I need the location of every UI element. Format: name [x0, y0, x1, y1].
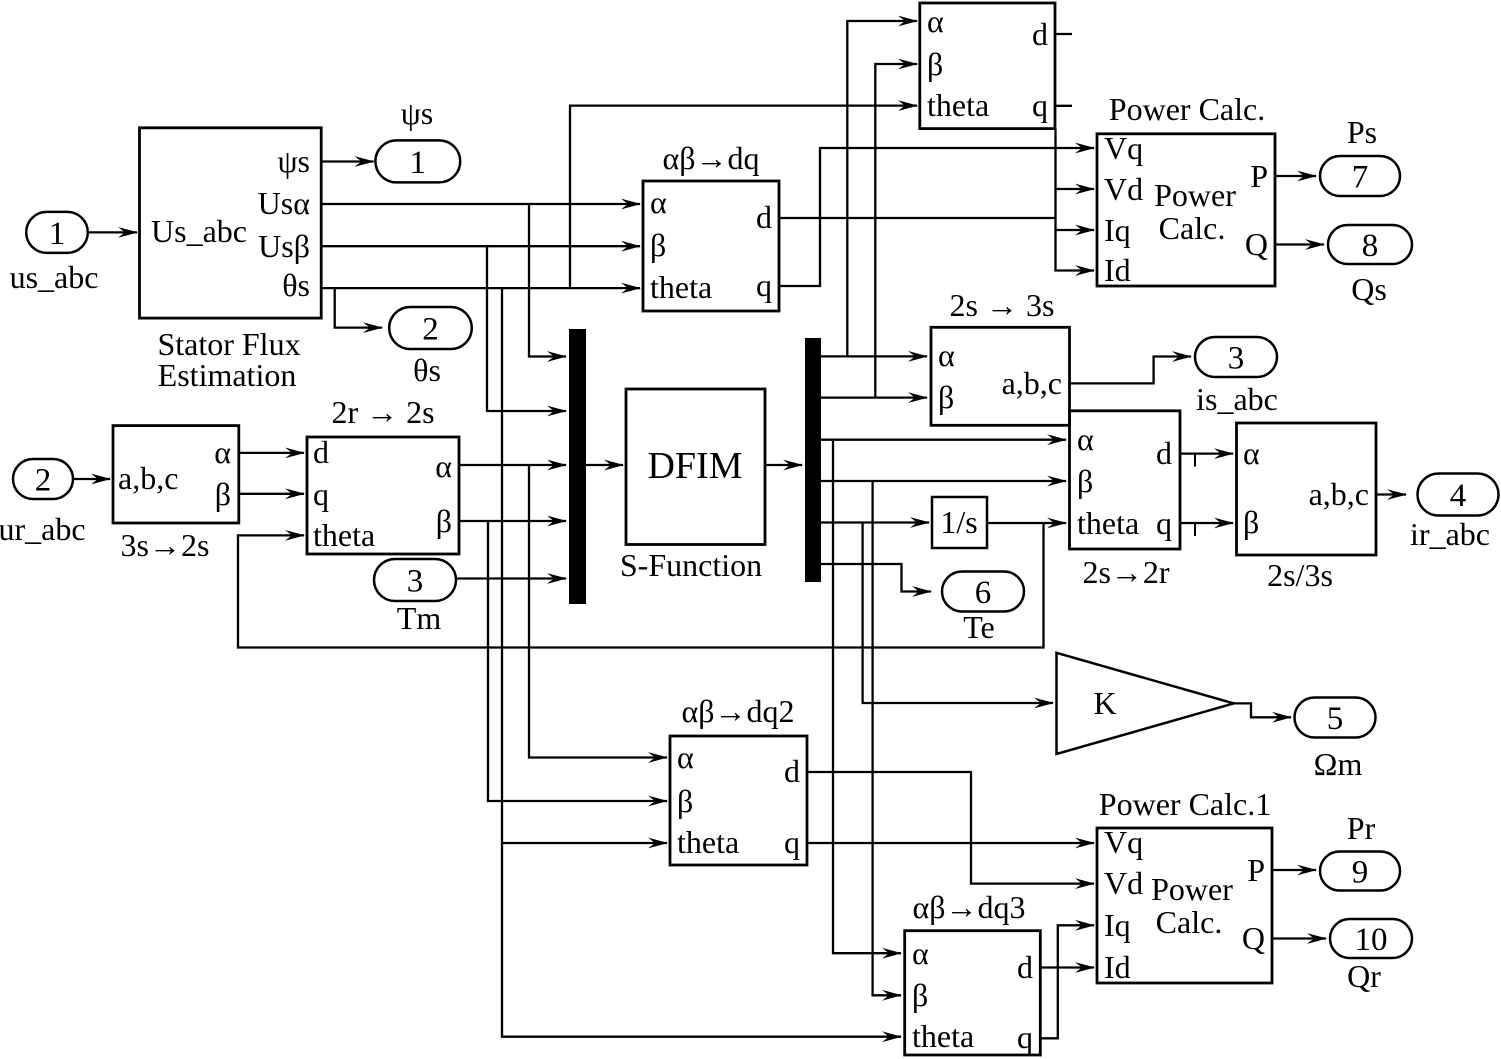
wire Demux out5 branch down to gain K: [863, 523, 1053, 704]
svg-text:α: α: [214, 434, 231, 470]
wire PowerCalc1 Q to port 10: [1272, 937, 1326, 939]
output port 4 (ir_abc): [1418, 474, 1499, 516]
svg-text:α: α: [938, 337, 955, 373]
svg-text:2s/3s: 2s/3s: [1267, 557, 1333, 593]
wire 2r-2s alpha to Mux input 3: [459, 464, 566, 466]
svg-text:theta: theta: [1077, 505, 1139, 541]
wire Demux out4 to 2s-2r beta: [821, 480, 1066, 482]
block 2s-2r: [1070, 411, 1181, 549]
wire theta-s branch to port 2: [335, 288, 382, 328]
svg-text:Ωm: Ωm: [1314, 746, 1363, 782]
svg-text:Estimation: Estimation: [158, 357, 297, 393]
block 3s-2s: [113, 426, 239, 523]
svg-text:α: α: [927, 3, 944, 39]
wire 2s/3s abc to port 4: [1376, 493, 1406, 495]
svg-text:Vq: Vq: [1104, 824, 1143, 860]
wire theta-s branch down to dq2/dq3 theta: [502, 288, 901, 1037]
wire Demux out2 to 2s-3s beta: [821, 396, 927, 398]
block top ab-dq (stator currents): [920, 3, 1055, 129]
output port 1 (psi s): [375, 140, 460, 182]
svg-text:α: α: [650, 184, 667, 220]
block Power Calc 1: [1097, 828, 1272, 983]
svg-text:q: q: [784, 824, 800, 860]
wire top block corner down to PowerCalc inputs: [1056, 129, 1095, 271]
wire ab-dq d output to PowerCalc vertical: [779, 217, 1056, 219]
svg-text:β: β: [436, 503, 452, 539]
svg-text:1/s: 1/s: [940, 504, 977, 540]
svg-text:S-Function: S-Function: [620, 547, 762, 583]
wire SFE theta-s to ab-dq theta: [321, 287, 640, 289]
stub top ab-dq q output: [1055, 105, 1072, 107]
svg-text:d: d: [1032, 16, 1048, 52]
block 2s-3s: [931, 327, 1070, 425]
output port 7 (Ps): [1320, 156, 1400, 196]
output port 5 (Omega m): [1295, 698, 1376, 738]
svg-text:a,b,c: a,b,c: [118, 460, 178, 496]
svg-text:Vd: Vd: [1104, 865, 1143, 901]
svg-text:Vq: Vq: [1104, 130, 1143, 166]
svg-text:2: 2: [35, 462, 52, 498]
wire branch to PowerCalc Vd: [1056, 188, 1095, 190]
wire In2 to 3s-2s: [73, 478, 110, 480]
svg-text:d: d: [756, 199, 772, 235]
svg-text:a,b,c: a,b,c: [1002, 365, 1062, 401]
wire Tm to Mux input 5: [456, 577, 566, 579]
input port 3 (Tm): [374, 559, 456, 601]
svg-text:q: q: [756, 267, 772, 303]
svg-text:3: 3: [407, 563, 424, 599]
svg-text:is_abc: is_abc: [1196, 381, 1278, 417]
svg-text:Iq: Iq: [1104, 907, 1131, 943]
block Stator Flux Estimation: [140, 128, 322, 318]
wire SFE Us-alpha to ab-dq alpha: [321, 203, 640, 205]
block 2r-2s: [307, 437, 459, 554]
wire Demux out1 to 2s-3s alpha: [821, 355, 927, 357]
svg-text:Power: Power: [1151, 871, 1233, 907]
wire theta feedback to 2r-2s theta: [238, 523, 1044, 648]
wire SFE Us-beta to ab-dq beta: [321, 245, 640, 247]
svg-text:8: 8: [1362, 228, 1379, 264]
output port 2 (theta s): [389, 307, 472, 349]
block ab-dq3: [905, 931, 1041, 1055]
svg-text:ur_abc: ur_abc: [0, 511, 86, 547]
block 1-over-s: [932, 497, 987, 548]
svg-text:Power Calc.: Power Calc.: [1109, 91, 1265, 127]
wire 1-over-s output to 2s-2r theta: [987, 522, 1066, 524]
svg-text:Calc.: Calc.: [1159, 210, 1226, 246]
wire DFIM output to Demux: [765, 464, 802, 466]
svg-text:Us_abc: Us_abc: [151, 213, 247, 249]
svg-text:3: 3: [1228, 340, 1245, 376]
svg-text:β: β: [215, 476, 231, 512]
wire ab-dq2 d to PowerCalc1 Vd: [807, 772, 1094, 884]
block Power Calc: [1097, 134, 1275, 286]
svg-text:7: 7: [1352, 159, 1369, 195]
svg-text:Pr: Pr: [1347, 810, 1376, 846]
svg-text:P: P: [1250, 158, 1268, 194]
wire 2r-2s beta to Mux input 4: [459, 520, 566, 522]
svg-text:Qr: Qr: [1347, 958, 1381, 994]
svg-text:q: q: [1032, 87, 1048, 123]
svg-text:β: β: [650, 227, 666, 263]
svg-text:Usβ: Usβ: [258, 228, 310, 264]
input port 1 (us_abc): [26, 212, 88, 253]
svg-text:Calc.: Calc.: [1156, 904, 1223, 940]
wire In1 to Stator Flux Estimation: [88, 231, 137, 233]
svg-text:β: β: [1077, 463, 1093, 499]
input port 2 (ur_abc): [13, 459, 73, 499]
wire Demux out2 branch up to top ab-dq beta: [875, 64, 917, 398]
output port 9 (Pr): [1320, 852, 1400, 891]
wire SFE psi-s to port 1: [321, 160, 373, 162]
svg-text:1: 1: [49, 216, 66, 252]
svg-text:d: d: [784, 753, 800, 789]
wire theta-s branch up to top ab-dq theta: [570, 106, 917, 289]
svg-text:Iq: Iq: [1104, 212, 1131, 248]
wire Us-alpha branch to Mux input 1: [529, 204, 566, 357]
wire ab-dq2 q to PowerCalc1 Vq: [807, 842, 1094, 844]
svg-text:Id: Id: [1104, 252, 1131, 288]
svg-text:θs: θs: [413, 352, 441, 388]
svg-text:K: K: [1093, 685, 1116, 721]
svg-text:θs: θs: [282, 267, 310, 303]
wire 3s-2s alpha to 2r-2s d: [239, 452, 304, 454]
wire Demux out5 to 1-over-s: [821, 521, 929, 523]
wire ab-dq q output to PowerCalc Vq: [779, 148, 1094, 286]
svg-text:Ps: Ps: [1347, 114, 1377, 150]
svg-text:αβ→dq: αβ→dq: [662, 140, 759, 176]
wire 2r-2s alpha branch to ab-dq2 alpha: [529, 465, 667, 758]
svg-text:αβ→dq2: αβ→dq2: [681, 693, 794, 729]
svg-text:theta: theta: [927, 87, 989, 123]
wire PowerCalc P to port 7: [1275, 175, 1316, 177]
wire theta-s branch to ab-dq2 theta: [502, 842, 667, 844]
output port 6 (Te): [942, 572, 1024, 612]
wire 2r-2s beta branch to ab-dq2 beta: [488, 521, 667, 801]
svg-text:α: α: [1243, 435, 1260, 471]
svg-text:Te: Te: [963, 609, 995, 645]
wire 2s-2r q to 2s-3s beta input: [1180, 522, 1233, 524]
svg-text:Vd: Vd: [1104, 171, 1143, 207]
wire Mux output to DFIM: [586, 464, 623, 466]
svg-text:2s→2r: 2s→2r: [1082, 554, 1169, 590]
svg-text:Power: Power: [1154, 177, 1236, 213]
svg-text:q: q: [313, 476, 329, 512]
block ab-dq (alpha-beta to dq): [643, 181, 779, 311]
svg-text:Id: Id: [1104, 949, 1131, 985]
svg-text:β: β: [912, 977, 928, 1013]
stub top ab-dq d output: [1055, 33, 1072, 35]
wire ab-dq3 d to PowerCalc1 Id: [1040, 966, 1094, 968]
svg-text:2s → 3s: 2s → 3s: [950, 287, 1055, 323]
svg-text:Qs: Qs: [1351, 271, 1387, 307]
svg-text:d: d: [1156, 435, 1172, 471]
svg-text:d: d: [313, 434, 329, 470]
wire 2s-3s abc to port 3: [1070, 357, 1192, 384]
block DFIM S-Function: [626, 389, 765, 545]
svg-text:ψs: ψs: [401, 95, 433, 131]
svg-text:Q: Q: [1245, 226, 1268, 262]
wire gain K output to port 5: [1234, 703, 1291, 717]
svg-text:a,b,c: a,b,c: [1309, 476, 1369, 512]
wire Demux out4 branch down to ab-dq3 beta: [873, 481, 901, 995]
wire PowerCalc Q to port 8: [1275, 243, 1324, 245]
svg-text:β: β: [677, 783, 693, 819]
svg-text:α: α: [912, 935, 929, 971]
svg-text:theta: theta: [650, 269, 712, 305]
svg-text:α: α: [1077, 421, 1094, 457]
tick mark on d wire: [1194, 455, 1196, 467]
wire ab-dq3 q to PowerCalc1 Iq: [1040, 925, 1094, 1038]
wire Demux out1 branch up to top ab-dq alpha: [847, 21, 917, 356]
svg-text:β: β: [938, 379, 954, 415]
svg-text:2r → 2s: 2r → 2s: [331, 394, 434, 430]
svg-text:theta: theta: [313, 517, 375, 553]
wire 2s-2r d to 2s-3s alpha input: [1180, 452, 1233, 454]
svg-text:Power Calc.1: Power Calc.1: [1099, 786, 1271, 822]
svg-text:10: 10: [1355, 922, 1388, 958]
mux: [569, 329, 586, 604]
svg-text:β: β: [1243, 504, 1259, 540]
svg-text:αβ→dq3: αβ→dq3: [912, 889, 1025, 925]
wire PowerCalc1 P to port 9: [1272, 869, 1316, 871]
svg-text:d: d: [1017, 949, 1033, 985]
svg-text:q: q: [1156, 505, 1172, 541]
wire Demux out6 to port 6 Te: [821, 564, 931, 592]
svg-text:1: 1: [410, 145, 427, 181]
wire 3s-2s beta to 2r-2s q: [239, 493, 304, 495]
tick mark on q wire: [1194, 524, 1196, 536]
svg-text:9: 9: [1352, 854, 1369, 890]
wire Demux out3 branch down to ab-dq3 alpha: [833, 440, 901, 954]
svg-text:Q: Q: [1242, 920, 1265, 956]
svg-text:P: P: [1247, 852, 1265, 888]
svg-text:6: 6: [975, 575, 992, 611]
svg-text:β: β: [927, 46, 943, 82]
svg-text:5: 5: [1327, 701, 1344, 737]
svg-text:us_abc: us_abc: [10, 259, 99, 295]
svg-text:Tm: Tm: [397, 600, 442, 636]
output port 8 (Qs): [1328, 225, 1412, 264]
svg-text:α: α: [677, 739, 694, 775]
svg-text:theta: theta: [912, 1018, 974, 1054]
svg-text:q: q: [1017, 1019, 1033, 1055]
svg-text:2: 2: [422, 311, 439, 347]
output port 10 (Qr): [1330, 919, 1412, 958]
block ab-dq2: [670, 736, 807, 865]
svg-text:ψs: ψs: [278, 143, 310, 179]
svg-text:α: α: [435, 448, 452, 484]
svg-text:ir_abc: ir_abc: [1410, 516, 1490, 552]
svg-text:4: 4: [1450, 478, 1467, 514]
wire Demux out3 to 2s-2r alpha: [821, 439, 1066, 441]
block 2s-3s-out: [1237, 423, 1377, 555]
gain K: [1057, 653, 1234, 754]
svg-text:theta: theta: [677, 824, 739, 860]
svg-text:Usα: Usα: [258, 185, 311, 221]
wire branch to PowerCalc Iq: [1056, 229, 1095, 231]
svg-text:3s→2s: 3s→2s: [121, 527, 210, 563]
demux: [805, 338, 821, 582]
svg-text:DFIM: DFIM: [647, 445, 742, 487]
wire Us-beta branch to Mux input 2: [487, 246, 566, 411]
output port 3 (is_abc): [1195, 337, 1277, 377]
